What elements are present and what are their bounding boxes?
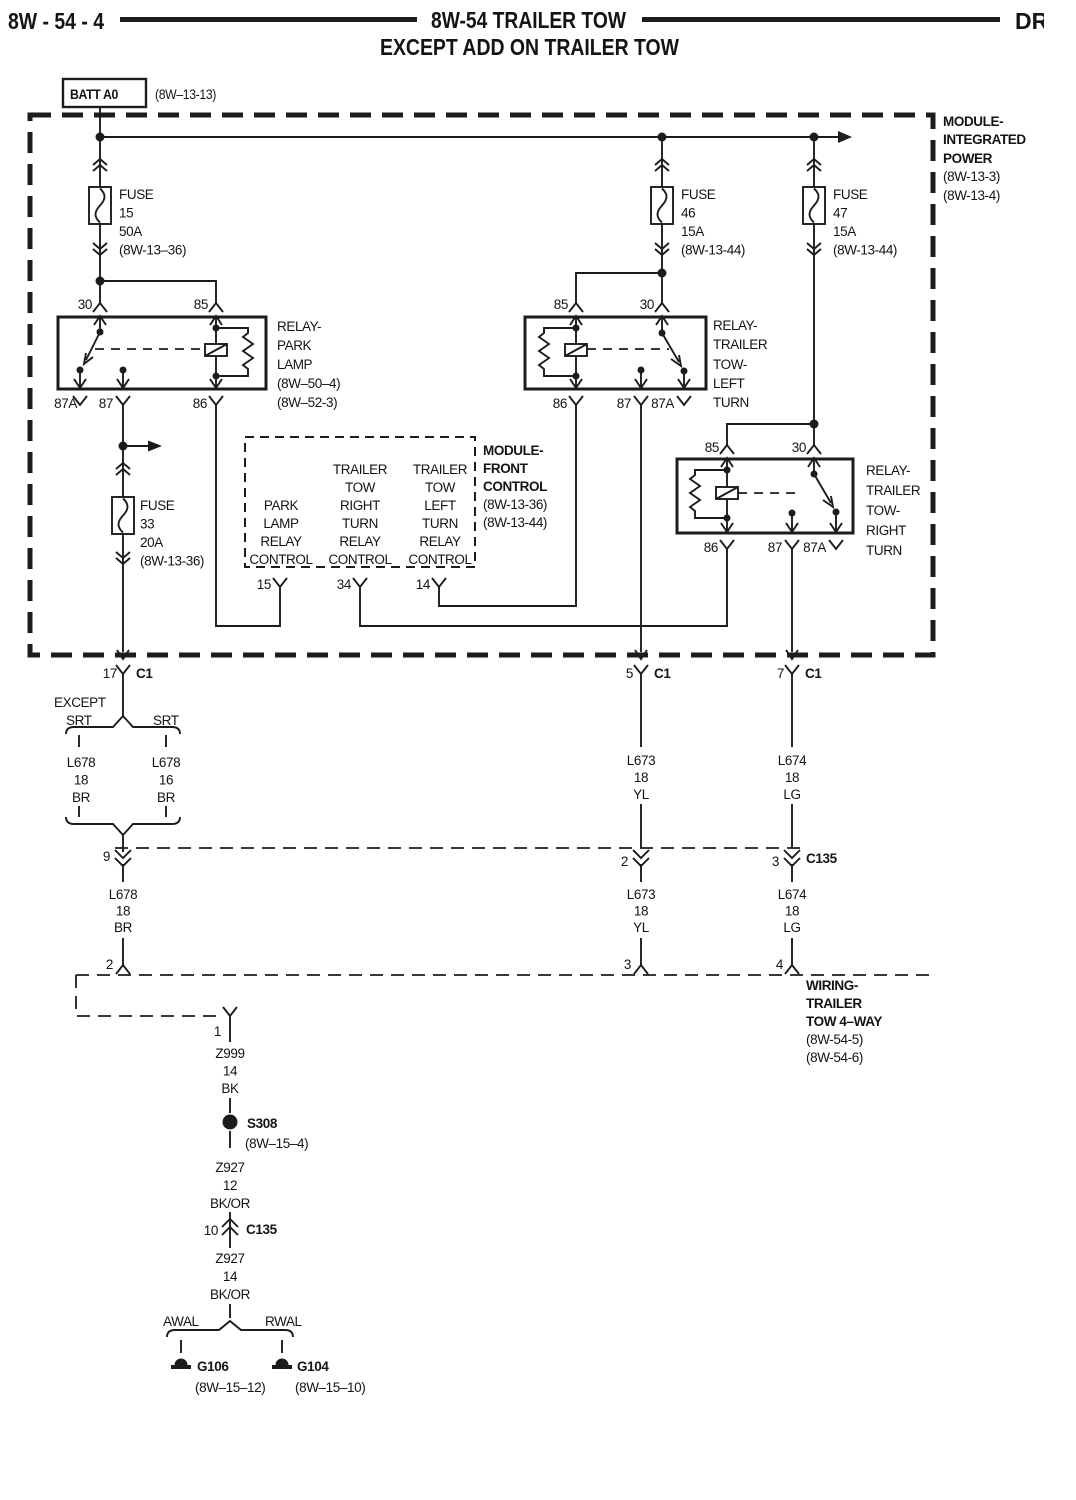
svg-text:RELAY: RELAY [339, 534, 381, 549]
svg-text:16: 16 [159, 773, 173, 788]
svg-text:14: 14 [223, 1269, 238, 1284]
svg-text:EXCEPT ADD ON TRAILER TOW: EXCEPT ADD ON TRAILER TOW [380, 34, 679, 60]
svg-text:BK/OR: BK/OR [210, 1287, 251, 1302]
svg-text:CONTROL: CONTROL [328, 552, 392, 567]
svg-text:C1: C1 [805, 666, 822, 681]
svg-text:TURN: TURN [342, 516, 378, 531]
svg-text:BK/OR: BK/OR [210, 1196, 251, 1211]
svg-text:(8W–52-3): (8W–52-3) [277, 395, 337, 410]
svg-text:Z999: Z999 [215, 1046, 244, 1061]
svg-text:MODULE-: MODULE- [943, 114, 1003, 129]
svg-text:(8W–15–12): (8W–15–12) [195, 1380, 265, 1395]
svg-text:18: 18 [116, 904, 130, 919]
svg-text:TRAILER: TRAILER [806, 996, 862, 1011]
svg-text:34: 34 [337, 577, 352, 592]
svg-text:8W-54 TRAILER TOW: 8W-54 TRAILER TOW [431, 7, 626, 33]
svg-text:17: 17 [103, 666, 117, 681]
svg-text:RELAY-: RELAY- [277, 319, 321, 334]
svg-text:TRAILER: TRAILER [713, 337, 768, 352]
svg-text:(8W–50–4): (8W–50–4) [277, 376, 340, 391]
svg-text:TOW: TOW [425, 480, 456, 495]
svg-text:30: 30 [78, 297, 92, 312]
svg-text:LG: LG [783, 787, 800, 802]
svg-text:50A: 50A [119, 224, 142, 239]
svg-text:46: 46 [681, 206, 695, 221]
svg-text:G104: G104 [297, 1359, 329, 1374]
svg-text:(8W–15–4): (8W–15–4) [245, 1136, 308, 1151]
svg-text:85: 85 [705, 440, 719, 455]
svg-text:TURN: TURN [713, 395, 749, 410]
svg-text:BR: BR [157, 790, 176, 805]
svg-text:87: 87 [617, 396, 631, 411]
svg-text:2: 2 [621, 854, 628, 869]
svg-text:20A: 20A [140, 535, 163, 550]
svg-text:CONTROL: CONTROL [483, 479, 547, 494]
svg-text:87: 87 [99, 396, 113, 411]
svg-text:C135: C135 [806, 851, 838, 866]
svg-text:14: 14 [223, 1064, 238, 1079]
svg-text:TURN: TURN [422, 516, 458, 531]
svg-text:7: 7 [777, 666, 784, 681]
svg-text:(8W-13-44): (8W-13-44) [681, 243, 745, 258]
svg-text:L674: L674 [778, 887, 807, 902]
svg-text:G106: G106 [197, 1359, 229, 1374]
svg-text:FUSE: FUSE [681, 187, 716, 202]
svg-text:12: 12 [223, 1178, 237, 1193]
svg-text:C1: C1 [136, 666, 153, 681]
svg-text:5: 5 [626, 666, 633, 681]
svg-text:INTEGRATED: INTEGRATED [943, 132, 1026, 147]
svg-text:S308: S308 [247, 1116, 278, 1131]
svg-text:85: 85 [554, 297, 568, 312]
svg-text:(8W-13-36): (8W-13-36) [483, 497, 547, 512]
svg-text:87A: 87A [651, 396, 674, 411]
svg-text:3: 3 [772, 854, 779, 869]
svg-text:C135: C135 [246, 1222, 278, 1237]
svg-text:Z927: Z927 [215, 1160, 244, 1175]
svg-text:87A: 87A [803, 540, 826, 555]
svg-text:87A: 87A [54, 396, 77, 411]
svg-text:L678: L678 [109, 887, 137, 902]
svg-text:18: 18 [74, 773, 88, 788]
svg-text:CONTROL: CONTROL [408, 552, 472, 567]
svg-text:1: 1 [214, 1024, 221, 1039]
svg-text:TURN: TURN [866, 543, 902, 558]
svg-text:85: 85 [194, 297, 208, 312]
svg-text:10: 10 [204, 1223, 218, 1238]
svg-text:18: 18 [634, 770, 648, 785]
svg-text:TRAILER: TRAILER [413, 462, 468, 477]
svg-text:L678: L678 [152, 755, 180, 770]
svg-text:LG: LG [783, 920, 800, 935]
svg-text:30: 30 [792, 440, 806, 455]
svg-text:L673: L673 [627, 887, 655, 902]
svg-text:33: 33 [140, 517, 154, 532]
svg-text:BK: BK [221, 1081, 239, 1096]
svg-text:(8W-54-6): (8W-54-6) [806, 1050, 863, 1065]
svg-text:EXCEPT: EXCEPT [54, 695, 106, 710]
svg-text:(8W-54-5): (8W-54-5) [806, 1032, 863, 1047]
svg-text:POWER: POWER [943, 151, 993, 166]
svg-text:15A: 15A [833, 224, 856, 239]
svg-text:SRT: SRT [66, 713, 92, 728]
svg-text:(8W-13-44): (8W-13-44) [483, 515, 547, 530]
svg-text:MODULE-: MODULE- [483, 443, 543, 458]
svg-text:YL: YL [633, 920, 650, 935]
svg-text:LAMP: LAMP [277, 357, 313, 372]
svg-text:18: 18 [785, 770, 799, 785]
svg-text:2: 2 [106, 957, 113, 972]
svg-text:PARK: PARK [277, 338, 312, 353]
svg-text:18: 18 [634, 904, 648, 919]
svg-text:14: 14 [416, 577, 431, 592]
svg-text:LEFT: LEFT [713, 376, 745, 391]
svg-text:TOW: TOW [345, 480, 376, 495]
svg-text:YL: YL [633, 787, 650, 802]
svg-text:BATT A0: BATT A0 [70, 87, 118, 102]
svg-text:FUSE: FUSE [140, 498, 175, 513]
svg-text:Z927: Z927 [215, 1251, 244, 1266]
svg-text:RIGHT: RIGHT [866, 523, 906, 538]
svg-text:(8W-13-3): (8W-13-3) [943, 169, 1000, 184]
svg-text:4: 4 [776, 957, 784, 972]
svg-text:(8W–13-13): (8W–13-13) [155, 87, 216, 102]
svg-text:30: 30 [640, 297, 654, 312]
svg-text:3: 3 [624, 957, 631, 972]
svg-text:TOW-: TOW- [866, 503, 900, 518]
svg-text:L674: L674 [778, 753, 807, 768]
svg-text:AWAL: AWAL [163, 1314, 200, 1329]
svg-text:PARK: PARK [264, 498, 299, 513]
svg-text:RELAY-: RELAY- [866, 463, 910, 478]
svg-text:(8W-13-4): (8W-13-4) [943, 188, 1000, 203]
svg-text:FRONT: FRONT [483, 461, 529, 476]
svg-text:WIRING-: WIRING- [806, 978, 858, 993]
svg-text:TRAILER: TRAILER [333, 462, 388, 477]
svg-text:(8W–15–10): (8W–15–10) [295, 1380, 365, 1395]
svg-text:RELAY: RELAY [419, 534, 461, 549]
svg-text:DR: DR [1015, 8, 1049, 34]
svg-text:RELAY: RELAY [260, 534, 302, 549]
svg-text:TOW-: TOW- [713, 357, 747, 372]
svg-text:8W - 54 - 4: 8W - 54 - 4 [8, 8, 104, 34]
svg-text:FUSE: FUSE [119, 187, 154, 202]
svg-text:(8W-13-44): (8W-13-44) [833, 243, 897, 258]
svg-text:C1: C1 [654, 666, 671, 681]
svg-text:TOW 4–WAY: TOW 4–WAY [806, 1014, 882, 1029]
svg-text:LEFT: LEFT [424, 498, 456, 513]
svg-text:86: 86 [704, 540, 718, 555]
svg-text:CONTROL: CONTROL [249, 552, 313, 567]
svg-text:L678: L678 [67, 755, 95, 770]
svg-text:86: 86 [553, 396, 567, 411]
svg-text:18: 18 [785, 904, 799, 919]
svg-text:(8W-13–36): (8W-13–36) [119, 243, 186, 258]
svg-text:BR: BR [72, 790, 91, 805]
svg-text:9: 9 [103, 849, 110, 864]
svg-text:L673: L673 [627, 753, 655, 768]
svg-text:BR: BR [114, 920, 133, 935]
svg-text:15: 15 [257, 577, 271, 592]
svg-text:87: 87 [768, 540, 782, 555]
svg-text:15: 15 [119, 206, 133, 221]
svg-text:RELAY-: RELAY- [713, 318, 757, 333]
svg-text:SRT: SRT [153, 713, 179, 728]
svg-text:15A: 15A [681, 224, 704, 239]
svg-text:RIGHT: RIGHT [340, 498, 380, 513]
svg-text:86: 86 [193, 396, 207, 411]
svg-text:FUSE: FUSE [833, 187, 868, 202]
svg-text:TRAILER: TRAILER [866, 483, 921, 498]
svg-text:LAMP: LAMP [263, 516, 299, 531]
svg-text:47: 47 [833, 206, 847, 221]
svg-text:RWAL: RWAL [265, 1314, 303, 1329]
svg-text:(8W-13-36): (8W-13-36) [140, 554, 204, 569]
